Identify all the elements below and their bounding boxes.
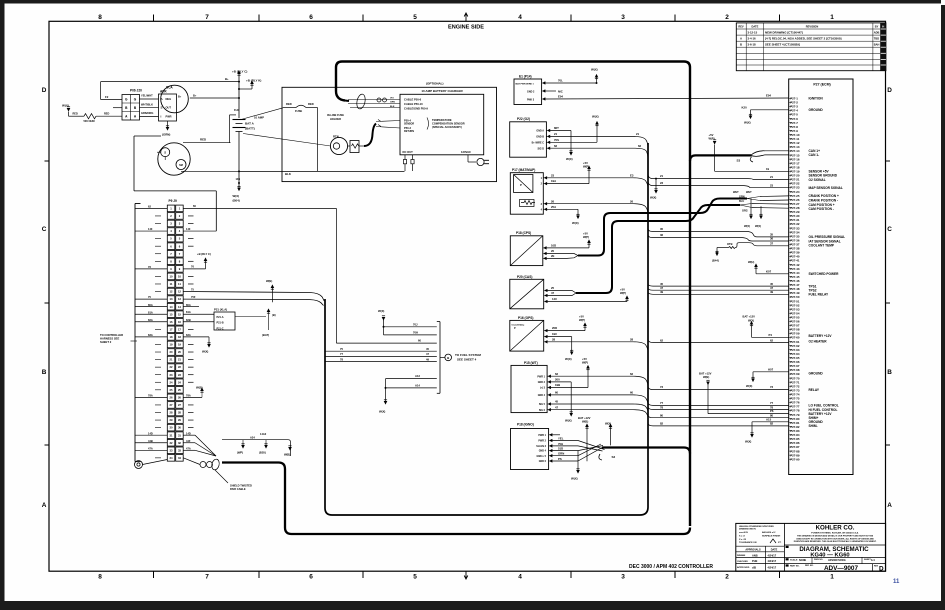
svg-text:COOLANT TEMP: COOLANT TEMP — [809, 243, 835, 247]
svg-text:TO CONTROLLER: TO CONTROLLER — [100, 333, 123, 337]
stubs P9 left nc — [155, 216, 161, 458]
svg-text:CABLE/GND P50-9: CABLE/GND P50-9 — [404, 106, 428, 110]
svg-text:N/C: N/C — [558, 89, 563, 93]
svg-text:RED: RED — [73, 113, 78, 116]
svg-text:29: 29 — [178, 418, 181, 422]
flag wx ign — [605, 422, 612, 446]
svg-text:GRN/ORG: GRN/ORG — [141, 111, 153, 115]
svg-text:A24: A24 — [250, 435, 255, 439]
svg-text:SURFACE FINISH: SURFACE FINISH — [762, 534, 781, 537]
svg-text:62: 62 — [555, 372, 559, 376]
wires fuel 70J 70H — [378, 309, 437, 335]
svg-text:SEE SHEET 4 [CT105829]: SEE SHEET 4 [CT105829] — [765, 43, 800, 47]
svg-text:21: 21 — [170, 358, 173, 362]
svg-text:7: 7 — [205, 14, 209, 21]
svg-text:32: 32 — [178, 441, 181, 445]
wires P9 left — [135, 204, 167, 450]
svg-text:GND-L 5: GND-L 5 — [536, 455, 546, 458]
svg-text:P06 J20: P06 J20 — [130, 89, 142, 93]
flag bat12v ign — [578, 416, 591, 461]
svg-text:34: 34 — [170, 456, 173, 460]
svg-text:14B: 14B — [236, 178, 241, 181]
wire 10D — [546, 232, 591, 248]
svg-text:DWG NO.: DWG NO. — [814, 559, 823, 561]
flag 5v sensor pin19 — [709, 133, 789, 171]
svg-text:49: 49 — [660, 290, 664, 294]
svg-text:3-12-15: 3-12-15 — [748, 31, 758, 35]
svg-text:REF. NO.: REF. NO. — [805, 565, 814, 567]
svg-text:E1 (P14): E1 (P14) — [519, 74, 532, 78]
svg-text:83A: 83A — [148, 333, 153, 337]
svg-text:P9 J9: P9 J9 — [169, 199, 178, 203]
wire 62 to bus — [550, 144, 648, 158]
svg-text:25: 25 — [178, 388, 181, 392]
svg-text:19C: 19C — [552, 332, 557, 336]
svg-text:+B (RLY C): +B (RLY C) — [197, 252, 211, 256]
svg-text:BAT +12V: BAT +12V — [743, 315, 756, 319]
svg-text:70L: 70L — [558, 79, 563, 83]
svg-text:SEE SHEET 4: SEE SHEET 4 — [457, 358, 477, 362]
svg-text:I: I — [161, 114, 162, 118]
svg-text:BAH: BAH — [874, 43, 880, 47]
zone numbers — [98, 14, 834, 580]
svg-text:PART NO.: PART NO. — [790, 565, 800, 568]
svg-text:mm A IN: mm A IN — [739, 531, 748, 534]
starter motor SM — [157, 143, 190, 175]
svg-text:14: 14 — [170, 305, 173, 309]
svg-text:82B: 82B — [186, 318, 191, 322]
svg-text:80A: 80A — [148, 303, 153, 307]
svg-text:2: 2 — [725, 14, 729, 21]
svg-text:60: 60 — [555, 391, 559, 395]
svg-text:10: 10 — [178, 275, 181, 279]
regulator AVR — [159, 90, 177, 122]
svg-text:28: 28 — [630, 337, 634, 341]
svg-text:1: 1 — [170, 206, 172, 210]
svg-text:SM: SM — [179, 164, 183, 167]
svg-text:4/24/17: 4/24/17 — [768, 566, 777, 570]
svg-text:2: 2 — [541, 183, 543, 186]
svg-text:GRN: GRN — [390, 102, 395, 104]
svg-text:W(X): W(X) — [650, 196, 656, 200]
svg-text:29: 29 — [170, 418, 173, 422]
svg-text:SCALE: SCALE — [790, 559, 798, 562]
svg-text:GND A: GND A — [536, 130, 544, 133]
svg-text:W(B): W(B) — [703, 375, 709, 379]
sensor P18 CPS — [510, 231, 546, 266]
svg-text:A13: A13 — [415, 374, 420, 378]
svg-text:WHT: WHT — [746, 191, 752, 194]
wires fuel A13 A14 — [379, 374, 437, 413]
cable merge bottom — [183, 435, 220, 470]
wires oil-iat-coolant — [648, 227, 789, 241]
svg-text:22: 22 — [178, 365, 181, 369]
svg-text:CABLE P50-10: CABLE P50-10 — [404, 102, 423, 106]
svg-text:W(X): W(X) — [746, 384, 752, 388]
svg-text:19: 19 — [178, 343, 181, 347]
svg-text:PAIR CABLE: PAIR CABLE — [230, 487, 246, 491]
svg-text:9: 9 — [170, 267, 172, 271]
title block — [736, 523, 886, 572]
svg-text:A: A — [887, 502, 892, 509]
svg-text:W(P): W(P) — [620, 291, 626, 295]
svg-text:E04: E04 — [766, 93, 771, 97]
svg-text:BAT A: BAT A — [245, 122, 255, 126]
svg-text:PWR 1: PWR 1 — [538, 434, 546, 437]
svg-text:PS: PS — [558, 457, 562, 461]
cable bundle charger — [348, 93, 400, 109]
wire K20 ground pin4 — [742, 105, 789, 124]
svg-text:RED: RED — [200, 138, 206, 142]
svg-text:20: 20 — [551, 249, 555, 253]
svg-text:14D: 14D — [186, 431, 191, 435]
cable wye CAS — [566, 291, 576, 296]
wire 28 to bus — [547, 337, 648, 352]
flag wh switched power — [748, 260, 789, 274]
svg-text:SWITCHED POWER: SWITCHED POWER — [809, 272, 840, 276]
svg-text:23: 23 — [770, 183, 774, 187]
svg-text:(B55): (B55) — [259, 450, 266, 454]
svg-text:19: 19 — [766, 167, 770, 171]
svg-text:GND 2: GND 2 — [538, 381, 546, 384]
wire starter top-left — [134, 136, 161, 140]
svg-text:RELAY: RELAY — [809, 388, 820, 392]
svg-text:2: 2 — [179, 214, 181, 218]
wire diag battery-fuse — [241, 108, 283, 120]
svg-text:27: 27 — [178, 403, 181, 407]
sensor P20 CAS — [510, 275, 547, 309]
svg-text:W(B): W(B) — [266, 279, 272, 283]
wire 60 wt — [551, 391, 648, 406]
svg-text:P27 (ECM): P27 (ECM) — [813, 82, 830, 86]
wire 70S — [550, 115, 599, 143]
svg-text:W(X): W(X) — [566, 157, 573, 161]
scan black bar top — [0, 0, 941, 4]
svg-text:GROUND: GROUND — [809, 372, 824, 376]
svg-text:500 OHM: 500 OHM — [83, 119, 94, 123]
svg-text:75F: 75F — [191, 295, 196, 299]
svg-text:HOLDER: HOLDER — [330, 117, 341, 121]
svg-text:P17 (MAT/MAP): P17 (MAT/MAP) — [512, 168, 535, 172]
svg-text:36: 36 — [770, 237, 774, 241]
zone letters — [42, 87, 893, 509]
svg-text:GND 4: GND 4 — [539, 450, 547, 453]
svg-text:WHT/BLK: WHT/BLK — [141, 102, 153, 106]
flag wb bottom — [284, 443, 292, 456]
wires fuel bus exits — [325, 347, 437, 362]
svg-text:14D: 14D — [148, 431, 153, 435]
svg-text:4: 4 — [179, 229, 181, 233]
svg-text:NONE: NONE — [799, 559, 807, 562]
svg-text:26: 26 — [551, 199, 555, 203]
svg-text:8: 8 — [98, 573, 102, 580]
svg-text:(B): (B) — [272, 313, 276, 317]
svg-text:B: B — [740, 43, 742, 47]
svg-text:23: 23 — [660, 181, 664, 185]
svg-text:FUEL RELAY: FUEL RELAY — [809, 293, 830, 297]
svg-text:H: H — [882, 25, 884, 29]
wire starter RED — [183, 138, 231, 143]
ground AVR — [162, 121, 170, 137]
svg-text:82: 82 — [660, 422, 664, 426]
cable twist S3 CAN — [737, 151, 789, 163]
svg-text:70J: 70J — [413, 322, 418, 326]
svg-text:TO FUEL SYSTEM: TO FUEL SYSTEM — [455, 353, 481, 357]
svg-text:11: 11 — [170, 282, 173, 286]
svg-text:23: 23 — [178, 373, 181, 377]
svg-text:0.5-4.5V(GL): 0.5-4.5V(GL) — [512, 323, 525, 326]
svg-text:75: 75 — [148, 295, 151, 299]
svg-text:BLK: BLK — [285, 172, 292, 176]
svg-text:ADV—9007: ADV—9007 — [824, 565, 859, 572]
svg-text:1: 1 — [541, 177, 543, 180]
wire fuse loop — [317, 108, 319, 172]
wire 25 wye — [547, 286, 566, 290]
svg-text:D: D — [879, 565, 884, 572]
svg-text:W(X): W(X) — [744, 224, 750, 228]
svg-text:75: 75 — [340, 347, 343, 351]
wires P9 right — [183, 216, 216, 450]
svg-text:B+: B+ — [178, 96, 182, 99]
wires block-to-AVR — [140, 94, 159, 117]
svg-text:24: 24 — [170, 380, 173, 384]
wires shim — [648, 414, 789, 426]
svg-text:A: A — [125, 114, 128, 118]
svg-text:FUSE: FUSE — [295, 109, 302, 113]
svg-text:31: 31 — [170, 433, 173, 437]
svg-text:(GRN): (GRN) — [162, 133, 170, 137]
svg-text:20: 20 — [170, 350, 173, 354]
wire 47 wt — [551, 405, 648, 418]
svg-text:W(X): W(X) — [744, 120, 751, 124]
svg-text:B+: B+ — [225, 77, 229, 81]
node B fuel system — [437, 322, 482, 394]
svg-text:24: 24 — [178, 380, 181, 384]
svg-text:P16 (OPS): P16 (OPS) — [518, 316, 533, 320]
wire 70L — [545, 68, 598, 85]
svg-text:E3: E3 — [630, 173, 634, 177]
svg-text:P21-A: P21-A — [217, 316, 224, 319]
svg-text:3: 3 — [621, 14, 625, 21]
wire thick charger cable neck — [345, 100, 349, 103]
svg-text:MAP SENSOR SIGNAL: MAP SENSOR SIGNAL — [809, 186, 843, 190]
svg-text:A: A — [134, 114, 137, 118]
wire 26 to bus — [547, 199, 648, 214]
svg-text:27: 27 — [170, 403, 173, 407]
svg-text:4: 4 — [518, 573, 522, 580]
svg-text:23: 23 — [551, 173, 555, 177]
fuse FUSE — [283, 102, 318, 113]
connector U-P27 ECM — [789, 79, 853, 475]
svg-text:45: 45 — [426, 347, 429, 351]
svg-text:60: 60 — [193, 204, 196, 208]
svg-text:RETURN: RETURN — [404, 130, 414, 133]
wire block row B stub — [113, 107, 122, 109]
svg-text:HARNESS SEE: HARNESS SEE — [100, 336, 119, 340]
svg-text:28: 28 — [178, 411, 181, 415]
svg-text:18: 18 — [170, 335, 173, 339]
wire thick CAS harness — [576, 205, 740, 293]
svg-text:W(X): W(X) — [592, 115, 599, 119]
svg-text:14C: 14C — [552, 297, 557, 301]
svg-text:+5V: +5V — [620, 288, 625, 292]
svg-text:25: 25 — [551, 286, 555, 290]
svg-text:7: 7 — [179, 252, 181, 256]
svg-text:D: D — [887, 87, 892, 94]
svg-text:W(X): W(X) — [572, 221, 579, 225]
wire ground pin81 — [745, 417, 789, 443]
wire A24 — [222, 432, 291, 456]
svg-text:2E: 2E — [551, 254, 555, 258]
svg-text:12: 12 — [178, 290, 181, 294]
cable twist S2 — [552, 435, 615, 461]
resistor 500 OHM — [62, 104, 122, 123]
svg-text:SH-GN 3: SH-GN 3 — [536, 445, 546, 448]
svg-text:RED: RED — [308, 102, 314, 106]
svg-text:2: 2 — [170, 214, 172, 218]
svg-text:(OPTIONAL): (OPTIONAL) — [426, 82, 444, 86]
svg-text:ORG: ORG — [742, 209, 748, 212]
svg-text:(B44): (B44) — [712, 258, 719, 262]
svg-text:(SPECIAL ACCESSORY): (SPECIAL ACCESSORY) — [432, 125, 462, 129]
svg-text:B+ WIRE C: B+ WIRE C — [532, 141, 545, 144]
svg-text:31: 31 — [178, 433, 181, 437]
wire starter bottom — [181, 170, 239, 172]
svg-text:19: 19 — [170, 343, 173, 347]
svg-text:POWER SYSTEMS, KOHLER, WI 5: POWER SYSTEMS, KOHLER, WI 53044 U.S.A. — [811, 532, 859, 535]
flag rly c row9 — [183, 252, 211, 269]
svg-text:10 AMP: 10 AMP — [254, 116, 264, 120]
wire E04 ignition — [545, 93, 789, 99]
svg-text:O2 HEATER: O2 HEATER — [809, 339, 828, 343]
svg-text:17: 17 — [170, 327, 173, 331]
wire 21 to bus — [550, 132, 648, 148]
svg-text:ANB: ANB — [752, 554, 758, 558]
svg-text:C: C — [887, 226, 892, 233]
svg-text:21: 21 — [660, 174, 664, 178]
svg-text:81A: 81A — [148, 310, 153, 314]
svg-text:SIG 5: SIG 5 — [539, 403, 546, 406]
svg-text:X ± .25: X ± .25 — [739, 539, 747, 541]
svg-text:16: 16 — [170, 320, 173, 324]
svg-text:15: 15 — [178, 312, 181, 316]
svg-text:18: 18 — [178, 335, 181, 339]
svg-text:4/24/17: 4/24/17 — [768, 559, 777, 563]
svg-text:YEL: YEL — [558, 437, 564, 441]
svg-text:49: 49 — [426, 357, 429, 361]
svg-text:3: 3 — [179, 222, 181, 226]
svg-text:6: 6 — [170, 244, 172, 248]
svg-text:BLU: BLU — [739, 200, 744, 203]
svg-text:4: 4 — [170, 229, 172, 233]
svg-text:S: S — [161, 106, 163, 110]
svg-text:GRN: GRN — [558, 452, 564, 456]
svg-text:47: 47 — [555, 405, 559, 409]
wires P9 to inner loop — [183, 287, 324, 305]
svg-text:34: 34 — [178, 456, 181, 460]
label in-line fuse holder — [327, 113, 344, 121]
wire 45 wt — [551, 400, 648, 413]
svg-text:8: 8 — [170, 259, 172, 263]
svg-text:140: 140 — [148, 227, 153, 231]
svg-text:4: 4 — [541, 208, 543, 211]
svg-text:W(P): W(P) — [583, 165, 589, 169]
svg-text:16: 16 — [178, 320, 181, 324]
svg-text:ENGINE SIDE: ENGINE SIDE — [448, 25, 484, 31]
svg-text:SHIM-: SHIM- — [809, 424, 818, 428]
svg-text:37: 37 — [770, 242, 774, 246]
svg-text:GROUND: GROUND — [809, 108, 824, 112]
svg-text:W(X): W(X) — [378, 309, 384, 313]
svg-text:21: 21 — [636, 132, 640, 136]
svg-text:ADB: ADB — [874, 31, 880, 35]
svg-text:GND 2: GND 2 — [527, 90, 535, 93]
svg-text:B: B — [887, 369, 892, 376]
svg-text:60: 60 — [418, 339, 421, 343]
wire thick OPS harness — [578, 199, 747, 256]
svg-text:(+) 3: (+) 3 — [540, 387, 546, 390]
svg-text:33: 33 — [170, 448, 173, 452]
svg-text:11: 11 — [893, 579, 900, 585]
svg-text:17: 17 — [178, 327, 181, 331]
svg-text:+5V: +5V — [579, 315, 584, 319]
svg-text:G: G — [125, 97, 128, 101]
svg-text:1: 1 — [830, 14, 834, 21]
svg-text:W(X): W(X) — [591, 68, 598, 72]
svg-text:BATTERY +12V: BATTERY +12V — [809, 334, 833, 338]
svg-text:80: 80 — [660, 414, 664, 418]
svg-text:CAN 1-: CAN 1- — [809, 153, 820, 157]
wires cam position pair — [739, 196, 789, 228]
scan black bar right — [941, 5, 945, 610]
svg-text:49: 49 — [770, 290, 774, 294]
connector P21 CLA — [214, 307, 235, 330]
wire ground pin68 — [746, 367, 789, 388]
svg-text:SHEET 2: SHEET 2 — [100, 340, 112, 344]
svg-text:W(X): W(X) — [745, 440, 751, 444]
svg-text:5: 5 — [413, 573, 417, 580]
wire starter drop — [134, 136, 216, 231]
svg-text:62: 62 — [638, 144, 642, 148]
svg-text:20: 20 — [178, 350, 181, 354]
svg-text:BY: BY — [875, 24, 879, 28]
svg-text:ANGLES ±.5°: ANGLES ±.5° — [762, 531, 776, 534]
svg-text:GND B: GND B — [536, 136, 544, 139]
svg-text:200: 200 — [555, 378, 560, 382]
svg-text:TOLERANCE ON: TOLERANCE ON — [739, 541, 757, 544]
svg-text:(BATT): (BATT) — [245, 127, 255, 131]
svg-text:P18 (CPS): P18 (CPS) — [516, 231, 531, 235]
svg-text:62: 62 — [770, 338, 774, 342]
wire thick RTN to sensor — [364, 120, 400, 147]
svg-text:A14: A14 — [415, 384, 420, 388]
ground battery — [233, 172, 241, 203]
svg-text:REVISION: REVISION — [806, 24, 819, 28]
wire 47 wye — [547, 291, 566, 295]
svg-text:O2 SIGNAL: O2 SIGNAL — [809, 178, 826, 182]
cable wye OPS — [567, 254, 578, 259]
svg-text:INVENTION ARE RESERVED. THIS: INVENTION ARE RESERVED. THIS IS AN ELECT… — [794, 540, 877, 543]
svg-text:BAT +12V: BAT +12V — [578, 416, 591, 420]
svg-text:S3: S3 — [737, 159, 741, 163]
svg-text:36: 36 — [660, 233, 664, 237]
border frame — [49, 21, 886, 571]
svg-text:6: 6 — [309, 14, 313, 21]
sheet caption DEC 3000 — [629, 564, 713, 570]
svg-text:F2: F2 — [105, 95, 109, 99]
ring terminal RTN — [330, 135, 364, 155]
sensor P15 WT — [511, 361, 551, 413]
